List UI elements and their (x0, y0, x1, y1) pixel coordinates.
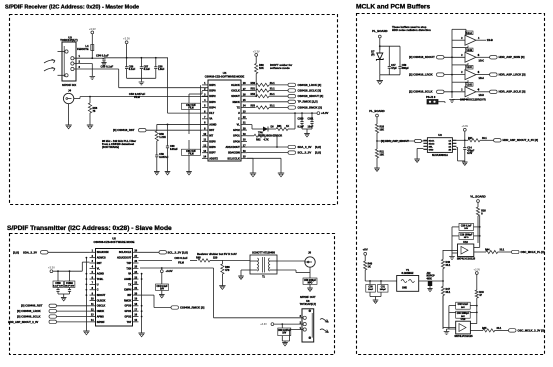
svg-text:OLRCK: OLRCK (97, 299, 106, 302)
svg-text:PL_BOARD: PL_BOARD (372, 29, 387, 33)
svg-text:1B: 1B (448, 143, 451, 145)
svg-text:+3.3V: +3.3V (123, 37, 130, 41)
svg-text:[2] CS8416_SCLK: [2] CS8416_SCLK (409, 90, 432, 94)
svg-text:33.1: 33.1 (446, 291, 451, 294)
svg-text:R62: R62 (256, 139, 261, 142)
svg-text:GND: GND (402, 288, 407, 290)
svg-text:S/PDIF Transmitter (I2C Addre: S/PDIF Transmitter (I2C Address: 0x28) -… (7, 225, 172, 232)
svg-text:VA: VA (128, 273, 131, 276)
svg-text:TXP: TXP (127, 262, 132, 265)
svg-text:C: C (97, 289, 99, 292)
svg-text:1.0uF: 1.0uF (158, 68, 165, 71)
svg-text:GPO2: GPO2 (124, 315, 131, 318)
svg-text:MCLK and PCM Buffers: MCLK and PCM Buffers (356, 4, 430, 11)
svg-text:R21: R21 (468, 137, 473, 140)
svg-text:C63 0.1uF: C63 0.1uF (174, 256, 188, 260)
svg-text:RXP2: RXP2 (209, 95, 216, 98)
svg-text:AGND: AGND (97, 273, 104, 276)
svg-text:RXP5: RXP5 (209, 140, 216, 143)
svg-text:S/PDIF: S/PDIF (97, 321, 105, 324)
svg-text:AD1/CDOUT: AD1/CDOUT (225, 146, 240, 149)
svg-text:FILM: FILM (178, 261, 184, 264)
svg-text:C101: C101 (308, 118, 315, 121)
svg-text:2A: 2A (448, 145, 451, 148)
svg-text:470: 470 (225, 268, 230, 272)
svg-text:SCL/CCLK: SCL/CCLK (227, 157, 240, 160)
svg-text:VL: VL (97, 267, 101, 270)
svg-text:1/2-A: 1/2-A (479, 77, 485, 80)
svg-text:2B: 2B (448, 149, 451, 151)
svg-text:CS8416_SDOUT [3]: CS8416_SDOUT [3] (298, 94, 324, 98)
svg-text:10K: 10K (259, 66, 264, 70)
svg-text:TOTX147(F,T): TOTX147(F,T) (300, 302, 317, 306)
svg-text:NLVAX8001A: NLVAX8001A (432, 153, 448, 157)
svg-text:+3.3V: +3.3V (89, 27, 96, 31)
svg-text:U2-A: U2-A (466, 32, 472, 35)
svg-text:U: U (238, 112, 240, 115)
svg-text:C159A: C159A (66, 282, 73, 285)
svg-text:SDA_3_3V: SDA_3_3V (298, 145, 312, 149)
svg-text:16V: 16V (461, 307, 465, 309)
svg-text:PS-J1 0: PS-J1 0 (426, 95, 436, 99)
svg-text:GPO0: GPO0 (233, 140, 240, 143)
svg-text:R65: R65 (196, 255, 201, 259)
svg-text:1A: 1A (448, 139, 451, 142)
svg-text:VL_BOARD: VL_BOARD (470, 195, 485, 199)
svg-text:C100: C100 (298, 118, 305, 121)
svg-text:U2-D: U2-D (466, 83, 472, 86)
svg-text:33.1: 33.1 (270, 88, 275, 91)
svg-text:RXP3: RXP3 (209, 101, 216, 104)
svg-text:SDA/CDIN: SDA/CDIN (97, 251, 109, 254)
svg-text:[2] CS8416_LRCK: [2] CS8416_LRCK (409, 73, 433, 77)
svg-text:S/PDIF RX: S/PDIF RX (62, 83, 76, 87)
svg-text:33.1: 33.1 (270, 105, 275, 108)
svg-text:R53: R53 (251, 105, 256, 108)
svg-text:R45: R45 (482, 327, 487, 330)
svg-text:CS8416-CZS-SOFTWARE-MODE: CS8416-CZS-SOFTWARE-MODE (205, 75, 245, 79)
svg-text:U4: U4 (223, 71, 227, 75)
svg-text:GPO0: GPO0 (124, 305, 131, 308)
svg-text:[3,8]: [3,8] (315, 151, 321, 155)
svg-text:+3.3V: +3.3V (48, 266, 55, 270)
svg-text:CS8416_LRCK [3]: CS8416_LRCK [3] (298, 83, 322, 87)
svg-text:RST: RST (209, 129, 214, 132)
svg-text:NPO: NPO (464, 237, 469, 239)
svg-text:6.3V: 6.3V (467, 152, 472, 155)
svg-text:10K: 10K (380, 128, 385, 131)
svg-text:GPO1: GPO1 (124, 310, 131, 313)
svg-text:+3.3V: +3.3V (166, 269, 173, 273)
svg-text:1/2-B: 1/2-B (487, 39, 493, 42)
svg-text:SN74LVC1G125: SN74LVC1G125 (454, 335, 473, 338)
svg-text:RXP1: RXP1 (209, 84, 216, 87)
svg-text:OSC_MCLK_PL [3]: OSC_MCLK_PL [3] (521, 250, 545, 254)
svg-text:47pF: 47pF (391, 67, 397, 70)
svg-text:TX: TX (128, 283, 131, 286)
svg-text:EMPH: EMPH (124, 289, 131, 292)
svg-text:RXP7: RXP7 (209, 152, 216, 155)
svg-text:HDR_ASP_SDOUT_3_3V: HDR_ASP_SDOUT_3_3V (8, 320, 39, 324)
svg-text:R44: R44 (485, 249, 490, 252)
svg-text:+3.3V: +3.3V (321, 111, 329, 115)
svg-text:SDOUT: SDOUT (231, 95, 240, 98)
svg-text:VA: VA (209, 118, 212, 121)
svg-text:4.7K: 4.7K (264, 139, 269, 142)
svg-text:10uF 16V: 10uF 16V (65, 285, 75, 287)
svg-text:U10: U10 (461, 317, 466, 321)
svg-text:[2] CS8416_SDOUT: [2] CS8416_SDOUT (409, 55, 435, 59)
svg-text:SDA/CDIN: SDA/CDIN (228, 152, 240, 155)
svg-text:10K: 10K (380, 153, 385, 156)
svg-text:APMS: APMS (97, 315, 104, 318)
svg-text:C33 1000pF: C33 1000pF (457, 313, 470, 315)
svg-text:U2-C: U2-C (466, 66, 472, 69)
svg-text:HDR_ASP_SDOUT_3_3V [3]: HDR_ASP_SDOUT_3_3V [3] (503, 138, 539, 142)
svg-text:OMCK: OMCK (97, 310, 105, 313)
svg-text:AD0/CS: AD0/CS (97, 257, 106, 260)
svg-text:[3,8]: [3,8] (315, 145, 321, 149)
svg-text:TX: TX (237, 106, 240, 109)
svg-text:HDR_ASP_LRCK [3]: HDR_ASP_LRCK [3] (499, 73, 526, 77)
svg-text:C65 1UF: C65 1UF (186, 150, 196, 153)
svg-text:C28 0.1uF: C28 0.1uF (461, 225, 472, 227)
svg-text:Resistor divider but 5V R 3.3V: Resistor divider but 5V R 3.3V (197, 252, 237, 256)
svg-text:TP_RMCK [2,3]: TP_RMCK [2,3] (298, 100, 318, 104)
svg-text:RMCK: RMCK (124, 299, 132, 302)
svg-text:OSC_MCLK_3_3V [3]: OSC_MCLK_3_3V [3] (518, 328, 545, 332)
svg-text:C64 0.1uF: C64 0.1uF (157, 285, 169, 288)
svg-text:U9: U9 (438, 133, 442, 137)
svg-text:VL: VL (237, 123, 241, 126)
svg-text:+3.3V: +3.3V (461, 125, 468, 128)
svg-text:1.21K: 1.21K (159, 136, 166, 139)
svg-text:33.1: 33.1 (497, 327, 502, 330)
svg-text:SCL_3_3V: SCL_3_3V (298, 151, 312, 155)
svg-text:SN74AUC125RGYR: SN74AUC125RGYR (460, 98, 486, 102)
svg-text:FILT: FILT (209, 112, 214, 115)
svg-text:U5: U5 (112, 237, 116, 241)
svg-text:16V: 16V (160, 289, 164, 291)
svg-text:[3] CS8416_RST: [3] CS8416_RST (113, 128, 135, 132)
svg-text:SCHOTT 67128450: SCHOTT 67128450 (252, 250, 275, 254)
svg-text:+5V: +5V (363, 247, 368, 251)
svg-text:33.1: 33.1 (446, 264, 451, 267)
svg-text:GPO2: GPO2 (233, 129, 240, 132)
svg-text:1/2-C: 1/2-C (479, 61, 485, 63)
svg-text:SDA2: SDA2 (429, 142, 435, 145)
svg-text:SDA_3_3V: SDA_3_3V (23, 250, 37, 254)
svg-text:[3,8]: [3,8] (13, 250, 19, 254)
svg-text:16V: 16V (282, 333, 286, 335)
svg-text:C54 0.1uF: C54 0.1uF (96, 54, 109, 58)
svg-text:33.1: 33.1 (270, 93, 275, 96)
svg-text:U2-B: U2-B (466, 49, 472, 52)
svg-text:10uF: 10uF (368, 289, 374, 291)
svg-text:+3.3V: +3.3V (473, 269, 480, 272)
svg-text:10uF: 10uF (308, 126, 314, 129)
svg-text:NOPOP: NOPOP (427, 276, 436, 278)
svg-text:R50: R50 (251, 82, 256, 85)
svg-text:33.1: 33.1 (482, 137, 487, 140)
svg-text:FILM: FILM (188, 154, 193, 156)
svg-text:HDR_ASP_SCLK [3]: HDR_ASP_SCLK [3] (499, 90, 526, 94)
svg-text:HDD noise radiation distortion: HDD noise radiation distortion (392, 28, 431, 32)
svg-text:C32 0.1uF: C32 0.1uF (458, 304, 469, 306)
svg-text:+3.3V: +3.3V (260, 323, 267, 326)
svg-text:C: C (238, 118, 240, 121)
svg-text:SN74LVC1G125: SN74LVC1G125 (457, 257, 476, 260)
svg-text:SCL/CCLK: SCL/CCLK (119, 251, 132, 254)
svg-text:[3] CS8406_RST: [3] CS8406_RST (21, 304, 43, 308)
svg-text:SCL_3_3V [3,8]: SCL_3_3V [3,8] (168, 250, 188, 254)
svg-text:CS8406_RMCK [3]: CS8406_RMCK [3] (180, 305, 204, 309)
svg-text:R51: R51 (251, 88, 256, 91)
svg-text:AGND: AGND (124, 278, 131, 281)
svg-text:RXP4: RXP4 (209, 106, 216, 109)
svg-text:J4: J4 (68, 89, 72, 93)
svg-text:U10: U10 (463, 240, 468, 244)
svg-text:0.01uF: 0.01uF (170, 148, 178, 151)
svg-text:TORX147(F,T): TORX147(F,T) (60, 38, 78, 42)
svg-text:0.1uF 16V: 0.1uF 16V (53, 285, 64, 287)
svg-text:SDOUT: SDOUT (97, 294, 106, 297)
svg-text:software mode: software mode (270, 66, 290, 70)
svg-text:(SOFTWARE): (SOFTWARE) (102, 145, 119, 149)
svg-text:GND: GND (429, 149, 434, 151)
svg-text:U6: U6 (306, 299, 310, 303)
svg-text:1K: 1K (286, 125, 289, 128)
svg-text:0.1uF: 0.1uF (129, 68, 136, 71)
svg-text:J6: J6 (308, 251, 312, 255)
svg-text:AGND: AGND (209, 123, 216, 126)
svg-text:TXN: TXN (126, 267, 131, 270)
svg-text:TCBL: TCBL (97, 278, 104, 281)
svg-text:S/PDIF OUT: S/PDIF OUT (300, 295, 316, 299)
svg-text:RXP6: RXP6 (209, 146, 216, 149)
svg-text:33.1: 33.1 (270, 82, 275, 85)
svg-text:100pF: 100pF (380, 289, 387, 291)
svg-text:INT: INT (127, 294, 131, 297)
svg-text:(P): (P) (371, 54, 374, 57)
svg-text:+3.3V: +3.3V (253, 49, 260, 53)
svg-text:RMCK: RMCK (232, 101, 240, 104)
svg-text:U: U (97, 283, 99, 286)
svg-text:Y1: Y1 (406, 268, 410, 272)
svg-text:C29 1000pF: C29 1000pF (460, 234, 473, 236)
svg-text:0.1uF: 0.1uF (144, 68, 151, 71)
svg-text:CS8416_SCLK [3]: CS8416_SCLK [3] (298, 88, 322, 92)
svg-text:C55 0.1uF: C55 0.1uF (101, 65, 114, 69)
svg-text:[3] CS8406_LRCK: [3] CS8406_LRCK (17, 309, 41, 313)
svg-text:CS8416_RMCK [3]: CS8416_RMCK [3] (298, 105, 322, 109)
svg-text:FILM: FILM (134, 96, 140, 99)
svg-text:S/PDIF Receiver (I2C Address:: S/PDIF Receiver (I2C Address: 0x20) - Ma… (5, 5, 139, 11)
svg-text:OLRCK: OLRCK (231, 84, 240, 87)
svg-text:NPO: NPO (308, 283, 313, 285)
svg-text:INT: INT (209, 135, 213, 138)
svg-text:R61: R61 (277, 125, 282, 128)
svg-text:16V: 16V (464, 228, 468, 230)
svg-text:403K: 403K (427, 277, 433, 280)
svg-text:GPO1: GPO1 (233, 135, 240, 138)
svg-text:R52: R52 (251, 93, 256, 96)
svg-text:AD1/TX: AD1/TX (209, 157, 218, 160)
svg-text:TST: TST (127, 321, 132, 324)
svg-text:33.1: 33.1 (500, 249, 505, 252)
svg-text:FILM: FILM (188, 108, 193, 110)
svg-text:CS8406-CZS-SOFTWARE MODE: CS8406-CZS-SOFTWARE MODE (94, 240, 135, 244)
svg-text:HDR_ASP_SDIN [3]: HDR_ASP_SDIN [3] (499, 55, 525, 59)
svg-text:220: 220 (213, 255, 218, 259)
svg-text:[3] CS8406_SCLK: [3] CS8406_SCLK (17, 314, 40, 318)
svg-text:OSCLK: OSCLK (231, 89, 240, 92)
svg-text:PL_BOARD: PL_BOARD (369, 109, 384, 113)
svg-text:8.192MHZ: 8.192MHZ (401, 271, 413, 275)
svg-text:SDA1: SDA1 (429, 139, 435, 142)
svg-text:RST: RST (97, 262, 102, 265)
svg-text:560pF: 560pF (402, 67, 410, 70)
svg-text:RXP0: RXP0 (209, 89, 216, 92)
svg-text:AD1/CDOUT: AD1/CDOUT (117, 257, 132, 260)
svg-text:C62 1UF: C62 1UF (186, 104, 196, 107)
svg-text:0.1uF: 0.1uF (298, 126, 305, 129)
svg-text:SEL: SEL (429, 146, 434, 148)
svg-text:OSCLK: OSCLK (97, 305, 106, 308)
svg-text:FERRITE: FERRITE (77, 47, 89, 51)
svg-text:1K: 1K (368, 265, 371, 268)
svg-text:C58 220pF: C58 220pF (304, 279, 317, 282)
